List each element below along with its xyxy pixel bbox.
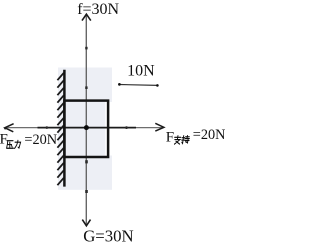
arrowhead left [5,124,14,132]
wall vertical line [63,70,66,187]
hanzi 压 [7,141,14,149]
svg-text:F: F [0,132,8,148]
scale bar [119,84,157,87]
dark overlay segment of horizontal line [38,127,137,129]
hanzi 持 [181,136,190,144]
vertical axis (f and G) [85,16,87,225]
svg-text:10N: 10N [127,63,155,80]
hanzi 力 [15,140,21,148]
hanzi 支 [174,136,181,144]
wall hatching [57,73,63,185]
arrowhead down (G) [82,220,90,226]
arrowhead up (f) [82,14,91,20]
white patch right of box interior [105,102,112,156]
ticks on vertical axis [85,47,87,50]
svg-text:f=30N: f=30N [77,1,119,18]
arrowhead right [155,123,164,131]
ticks on horizontal axis [46,126,49,129]
center dot [84,125,89,130]
box (object) [64,101,108,157]
svg-text:=20N: =20N [193,127,225,143]
svg-text:=20N: =20N [24,132,57,148]
horizontal axis [6,127,164,129]
wall shaded strip [58,68,112,190]
svg-text:G=30N: G=30N [83,227,133,243]
svg-text:F: F [166,129,174,145]
